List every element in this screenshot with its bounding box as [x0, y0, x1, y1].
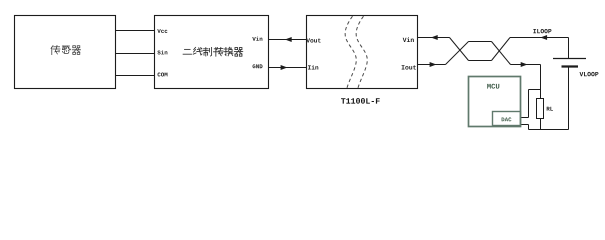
- branch junction to DAC sense: horizontal at y=89.5: [529, 89, 541, 91]
- MCU box: [469, 77, 521, 127]
- label VLOOP: [580, 72, 599, 76]
- isolation barrier dashed curve 2: [356, 16, 367, 88]
- wire down at x=528.2: [528, 90, 530, 118]
- battery VLOOP short plate: [562, 65, 579, 67]
- pin label GND: [253, 64, 263, 68]
- wire Vcc sensor to converter: [116, 30, 155, 32]
- wire down to RL top: [540, 65, 542, 99]
- isolator box T1100L-F: [307, 16, 418, 89]
- wire down to battery +: [568, 38, 570, 59]
- label T1100L-F: [341, 98, 380, 104]
- twisted pair crossing right segment C: [492, 42, 511, 65]
- pin label Sin: [157, 50, 167, 54]
- wire GND(converter) to Iin(T1100L-F): [269, 67, 307, 69]
- twisted pair crossing right segment D: [492, 38, 511, 61]
- arrow out of Iout: [430, 62, 437, 67]
- wire Iout loop to RL: horizontal: [511, 64, 541, 66]
- pin label Vin (T1100L-F right): [403, 37, 414, 42]
- wire Vin(T1100L-F) from loop: [418, 37, 450, 39]
- label RL: [547, 107, 553, 111]
- arrow into converter Vin: [285, 37, 292, 42]
- pin label Vout: [306, 38, 320, 42]
- pin label Vcc: [157, 29, 167, 33]
- ILOOP wire: [510, 37, 569, 39]
- sensor box 传感器: [15, 16, 116, 89]
- label 二线制转换器: [183, 49, 191, 54]
- twisted pair crossing left segment A: [450, 38, 469, 61]
- converter box 二线制转换器 U1: [155, 16, 269, 89]
- wire COM sensor to converter: [116, 75, 155, 77]
- pin label Vin (converter): [252, 37, 262, 41]
- label ILOOP: [533, 29, 551, 33]
- wire Iout(T1100L-F) to loop: [418, 64, 446, 66]
- DAC box: [493, 112, 521, 126]
- arrow into T1100L-F Iin: [281, 65, 288, 70]
- pin label Iin: [308, 65, 318, 69]
- label MCU: [487, 84, 499, 89]
- pin label Iout: [402, 65, 416, 69]
- arrow toward RL: [521, 62, 528, 67]
- wire DAC lower stub: [521, 124, 529, 126]
- arrow ILOOP pointing left: [540, 35, 547, 40]
- wire Sin sensor to converter: [116, 53, 155, 55]
- wire DAC upper stub: [521, 117, 529, 119]
- loop bottom wire: [529, 129, 569, 131]
- twisted pair lens top edge: [469, 41, 492, 43]
- twisted pair crossing left segment B: [446, 42, 469, 65]
- label 传感器: [51, 45, 60, 54]
- wire bottom step up toward DAC: [528, 125, 530, 130]
- pin label COM: [158, 73, 168, 77]
- resistor RL body: [537, 99, 544, 119]
- isolation barrier dashed curve 1: [345, 16, 356, 88]
- wire RL bottom to loop bottom: [540, 119, 542, 130]
- wire Vout(T1100L-F) to Vin(converter): [269, 39, 307, 41]
- twisted pair lens bottom edge: [469, 60, 492, 62]
- wire battery - down to loop bottom: [568, 67, 570, 130]
- battery VLOOP long plate: [553, 58, 586, 60]
- label DAC: [502, 117, 512, 121]
- arrow into T1100L-F Vin: [431, 35, 438, 40]
